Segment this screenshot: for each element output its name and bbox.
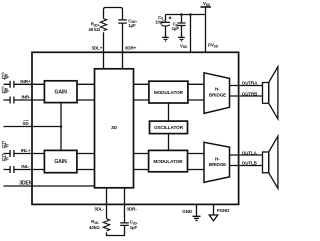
ground GND [193,216,201,220]
wire GAIN left to 3D (-) [77,169,95,171]
wire INR+ input [4,83,45,85]
ground (C_S) [162,37,169,41]
svg-text:BRIDGE: BRIDGE [209,92,226,97]
gain block GAIN (left channel) [44,150,77,172]
wire GAIN left to 3D (+) [77,153,95,155]
svg-text:1µF: 1µF [130,225,138,230]
ground PGND (chassis) [209,215,218,221]
plus sign C_S [169,16,172,19]
svg-text:GAIN: GAIN [55,89,68,95]
supply VDD bar [201,6,211,8]
IC outline U1 [32,52,239,204]
svg-text:1µF: 1µF [2,89,10,94]
svg-text:3DL-: 3DL- [94,207,104,212]
svg-text:1µF: 1µF [172,26,180,31]
capacitor C_IL (INL-) [10,166,14,173]
svg-text:OSCILLATOR: OSCILLATOR [154,125,184,130]
svg-text:40kΩ: 40kΩ [89,225,100,230]
wire INL+ input [4,153,45,155]
svg-text:3DEN: 3DEN [19,180,32,186]
resistor R_3D+ 40 kOhm [100,19,106,31]
wire OUTLA [230,154,263,156]
wire 3DR+ pin / top loop [106,8,123,69]
svg-text:INR+: INR+ [20,79,31,84]
svg-text:SD: SD [22,121,29,126]
svg-text:GAIN: GAIN [54,159,67,165]
wire 3DL+ pin [104,8,106,69]
svg-text:3DR+: 3DR+ [125,45,137,50]
ground (C_B) [178,37,185,41]
capacitor C_IL (INL+) [10,150,14,157]
svg-text:VDD: VDD [180,43,188,49]
svg-text:MODULATOR: MODULATOR [154,90,184,95]
H-bridge block (left channel) [204,142,230,182]
svg-text:H-: H- [215,87,220,92]
svg-text:GND: GND [182,209,193,214]
wire OUTLB [230,165,263,167]
capacitor C_3D- 1uF [120,223,129,226]
wire GND pin [196,204,198,216]
wire 3D to modulator (right) [134,84,149,100]
wire oscillator to modulator (left) [168,134,170,151]
wire bottom loop [107,226,125,236]
svg-text:PGND: PGND [217,208,229,213]
wire 3DL- pin [106,188,108,219]
svg-text:OUTLA: OUTLA [242,151,258,156]
svg-text:3D: 3D [111,125,118,131]
wire OUTRA [230,85,263,87]
capacitor C_IR (INR+) [10,81,14,88]
svg-text:OUTLB: OUTLB [242,161,258,166]
capacitor C_S plates [161,22,170,26]
wire INL- input [4,169,45,171]
wire 3D to modulator (left) [134,154,149,170]
oscillator block [150,121,188,134]
svg-text:VDD: VDD [203,1,211,7]
wire modulator to H-bridge (right, A) [188,83,205,85]
svg-text:OUTRA: OUTRA [242,81,258,86]
svg-text:1µF: 1µF [2,143,10,148]
wire INR- input [4,99,45,101]
svg-text:H-: H- [215,156,220,161]
wire SD shutdown [4,126,62,128]
wire supply rail [166,14,206,16]
wire gain control vertical [60,103,62,151]
H-bridge block (right channel) [204,73,230,114]
wire modulator to H-bridge (left, B) [188,169,205,171]
junction VDD rail [189,13,192,16]
wire GAIN right to 3D (-) [77,99,95,101]
gain block GAIN (right channel) [44,81,77,103]
svg-text:1µF: 1µF [128,23,136,28]
wire modulator to H-bridge (right, B) [188,99,205,101]
resistor R_3D- 40 kOhm [103,219,109,231]
capacitor C_3D+ 1uF [118,20,127,23]
wire VDD pin [190,15,192,53]
capacitor C_B plates [178,23,186,26]
svg-text:PVDD: PVDD [208,43,219,49]
capacitor C_IR (INR-) [10,97,14,104]
3D effect block [95,69,134,188]
wire PGND pin [213,204,215,215]
svg-text:10µF: 10µF [155,19,165,24]
svg-text:3DR-: 3DR- [127,207,138,212]
svg-text:MODULATOR: MODULATOR [153,159,183,164]
speaker (right channel) [263,67,278,119]
modulator block (right channel) [149,81,188,103]
wire GAIN right to 3D (+) [77,83,95,85]
capacitor C_B 1uF lead [181,15,183,38]
svg-text:INR-: INR- [21,94,31,99]
junction SD/gain [60,125,63,128]
svg-text:INL+: INL+ [21,148,31,153]
svg-text:R3D-: R3D- [91,219,99,225]
svg-text:3DL+: 3DL+ [91,45,102,50]
wire 3DR- pin [124,188,126,223]
svg-text:OUTRB: OUTRB [242,92,258,97]
junction C_B rail [180,13,183,16]
wire modulator to oscillator [168,103,170,121]
svg-text:INL-: INL- [21,164,30,169]
svg-text:1µF: 1µF [2,75,10,80]
wire 3DEN enable [4,185,95,187]
speaker (left channel) [263,136,278,188]
capacitor C_S 10uF lead [165,15,167,38]
svg-text:40 kΩ: 40 kΩ [88,27,100,32]
modulator block (left channel) [149,150,188,171]
wire OUTRB [230,95,263,97]
svg-text:1µF: 1µF [2,156,10,161]
svg-text:BRIDGE: BRIDGE [209,162,226,167]
wire PVDD pin [205,7,207,52]
wire modulator to H-bridge (left, A) [188,153,205,155]
